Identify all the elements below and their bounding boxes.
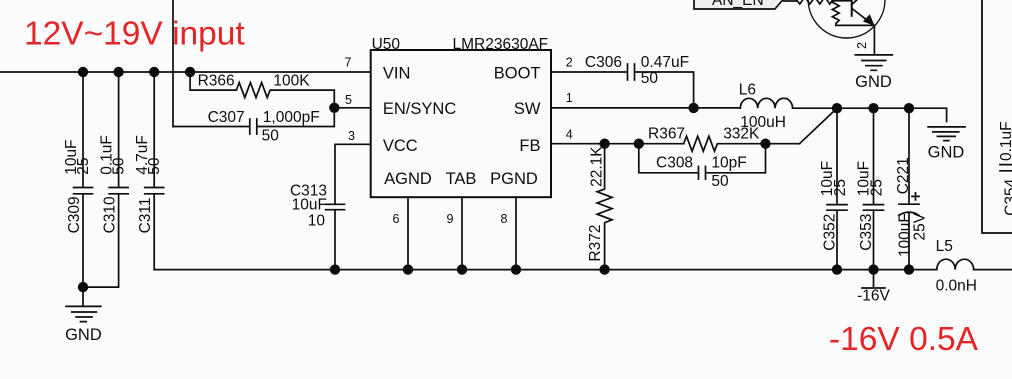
svg-text:50: 50 xyxy=(146,157,163,175)
svg-text:L6: L6 xyxy=(739,81,756,98)
wire SW line pin 1 xyxy=(551,107,740,109)
svg-text:25V: 25V xyxy=(912,212,929,240)
svg-text:AN_EN: AN_EN xyxy=(712,0,764,9)
svg-text:1: 1 xyxy=(566,91,573,105)
capacitor C221 polarized xyxy=(899,108,919,269)
capacitor C307 xyxy=(173,108,334,134)
svg-text:2: 2 xyxy=(566,55,573,69)
svg-text:AGND: AGND xyxy=(384,170,432,188)
inductor L6 xyxy=(740,98,792,108)
svg-text:2: 2 xyxy=(855,42,869,49)
node input-C310 xyxy=(113,67,123,77)
svg-text:3: 3 xyxy=(348,129,355,143)
capacitor C352 xyxy=(827,108,847,269)
svg-text:GND: GND xyxy=(928,144,965,162)
svg-text:50: 50 xyxy=(111,157,128,175)
wire SW output rail xyxy=(793,108,947,121)
svg-text:R366: R366 xyxy=(198,72,235,89)
resistor base R1 of Q (cut at top) xyxy=(795,0,852,4)
wire right block border xyxy=(982,0,1012,233)
svg-text:100uH: 100uH xyxy=(740,114,786,131)
svg-text:C307: C307 xyxy=(208,109,245,126)
wire PGND pin 8 xyxy=(515,197,517,269)
svg-text:-16V: -16V xyxy=(857,288,890,305)
svg-text:GND: GND xyxy=(65,326,102,344)
svg-text:22.1K: 22.1K xyxy=(589,146,606,187)
svg-text:4: 4 xyxy=(566,128,573,142)
node C308 left xyxy=(634,139,644,149)
node R372 bus xyxy=(599,264,609,274)
svg-text:7: 7 xyxy=(345,56,352,70)
net flag AN_EN xyxy=(694,0,793,9)
wire TAB pin 9 xyxy=(461,197,463,269)
svg-text:C311: C311 xyxy=(137,197,154,233)
svg-text:PGND: PGND xyxy=(490,170,538,188)
transistor emitter arrowhead xyxy=(863,14,875,26)
svg-text:L5: L5 xyxy=(936,238,953,255)
node EN pin5 xyxy=(329,103,339,113)
svg-text:10pF: 10pF xyxy=(711,155,746,172)
svg-text:C309: C309 xyxy=(66,196,83,233)
ground xyxy=(928,127,965,141)
svg-text:GND: GND xyxy=(855,73,892,91)
svg-text:50: 50 xyxy=(262,127,280,144)
node bus-C352 xyxy=(832,264,842,274)
node AGND bus xyxy=(403,264,413,274)
wire flag to transistor xyxy=(784,0,797,2)
wire FB line pin 4 xyxy=(551,143,684,145)
ground xyxy=(66,287,101,322)
svg-text:25: 25 xyxy=(75,158,92,175)
transistor Q digital npn xyxy=(808,0,885,55)
capacitor C313 xyxy=(326,204,345,269)
node C308 right xyxy=(760,139,770,149)
wire VCC stub pin 3 xyxy=(335,144,371,204)
svg-text:R372: R372 xyxy=(587,225,604,262)
ground xyxy=(855,55,892,70)
capacitor C308 xyxy=(639,144,766,179)
node input-R366 xyxy=(185,67,195,77)
svg-text:TAB: TAB xyxy=(446,170,477,188)
svg-text:VIN: VIN xyxy=(383,65,411,83)
node input-C309 xyxy=(78,67,88,77)
svg-text:1,000pF: 1,000pF xyxy=(263,109,320,126)
svg-text:0.0nH: 0.0nH xyxy=(936,277,977,294)
svg-text:SW: SW xyxy=(514,100,541,118)
svg-text:R367: R367 xyxy=(648,126,685,143)
node bus-C221 xyxy=(904,264,914,274)
node C313 bus xyxy=(330,264,340,274)
svg-text:LMR23630AF: LMR23630AF xyxy=(453,36,549,53)
capacitor C310 xyxy=(83,72,128,287)
wire FB diagonal to SW node xyxy=(800,108,838,144)
node SW-C221 xyxy=(904,103,914,113)
capacitor C354 plates xyxy=(1000,165,1012,171)
resistor R366 xyxy=(190,72,334,108)
svg-text:C310: C310 xyxy=(102,196,119,233)
svg-text:8: 8 xyxy=(501,212,508,226)
svg-text:-16V 0.5A: -16V 0.5A xyxy=(829,321,979,358)
svg-text:C352: C352 xyxy=(822,214,839,251)
node bus-C353 xyxy=(868,264,878,274)
svg-text:C221: C221 xyxy=(895,157,912,194)
capacitor C311 xyxy=(145,72,164,270)
power -16V bar xyxy=(862,270,885,288)
node BOOT-SW xyxy=(688,103,698,113)
svg-text:25: 25 xyxy=(832,179,849,196)
node SW-C352 xyxy=(832,103,842,113)
resistor R367 xyxy=(684,136,800,151)
ic U50 body xyxy=(371,50,551,197)
svg-text:C353: C353 xyxy=(858,214,875,251)
wire AGND pin 6 xyxy=(407,197,409,269)
svg-text:5: 5 xyxy=(345,93,352,107)
svg-text:U50: U50 xyxy=(372,36,401,53)
capacitor C306 xyxy=(551,64,694,108)
node PGND bus xyxy=(511,264,521,274)
svg-text:50: 50 xyxy=(711,173,729,190)
svg-text:10uF: 10uF xyxy=(292,197,327,214)
svg-text:6: 6 xyxy=(393,212,400,226)
node input-C311 xyxy=(149,67,159,77)
svg-text:50: 50 xyxy=(641,70,659,87)
wire EN/SYNC stub pin 5 xyxy=(334,107,370,109)
svg-text:12V~19V input: 12V~19V input xyxy=(24,16,245,53)
wire bottom ground bus xyxy=(154,269,909,271)
svg-text:100K: 100K xyxy=(273,72,310,89)
svg-text:10: 10 xyxy=(308,212,326,229)
svg-text:EN/SYNC: EN/SYNC xyxy=(383,100,456,118)
svg-text:0.1uF: 0.1uF xyxy=(998,121,1012,161)
capacitor C353 xyxy=(864,108,884,269)
wire node EN vertical from top xyxy=(172,0,174,127)
svg-text:VCC: VCC xyxy=(383,137,418,155)
capacitor C309 xyxy=(74,72,93,287)
svg-text:C308: C308 xyxy=(656,155,693,172)
inductor L5 xyxy=(909,259,1012,269)
resistor R372 xyxy=(597,144,612,270)
node C309-C310 gnd xyxy=(78,282,88,292)
node SW-C353 xyxy=(868,103,878,113)
svg-text:9: 9 xyxy=(447,212,454,226)
node TAB bus xyxy=(457,264,467,274)
node R372 top xyxy=(599,139,609,149)
svg-text:C306: C306 xyxy=(585,54,622,71)
svg-text:BOOT: BOOT xyxy=(494,65,541,83)
wire main input rail xyxy=(0,71,371,73)
svg-text:FB: FB xyxy=(519,137,540,155)
svg-text:0.47uF: 0.47uF xyxy=(641,54,689,71)
svg-text:25: 25 xyxy=(869,179,886,196)
svg-text:C354: C354 xyxy=(1003,178,1012,215)
